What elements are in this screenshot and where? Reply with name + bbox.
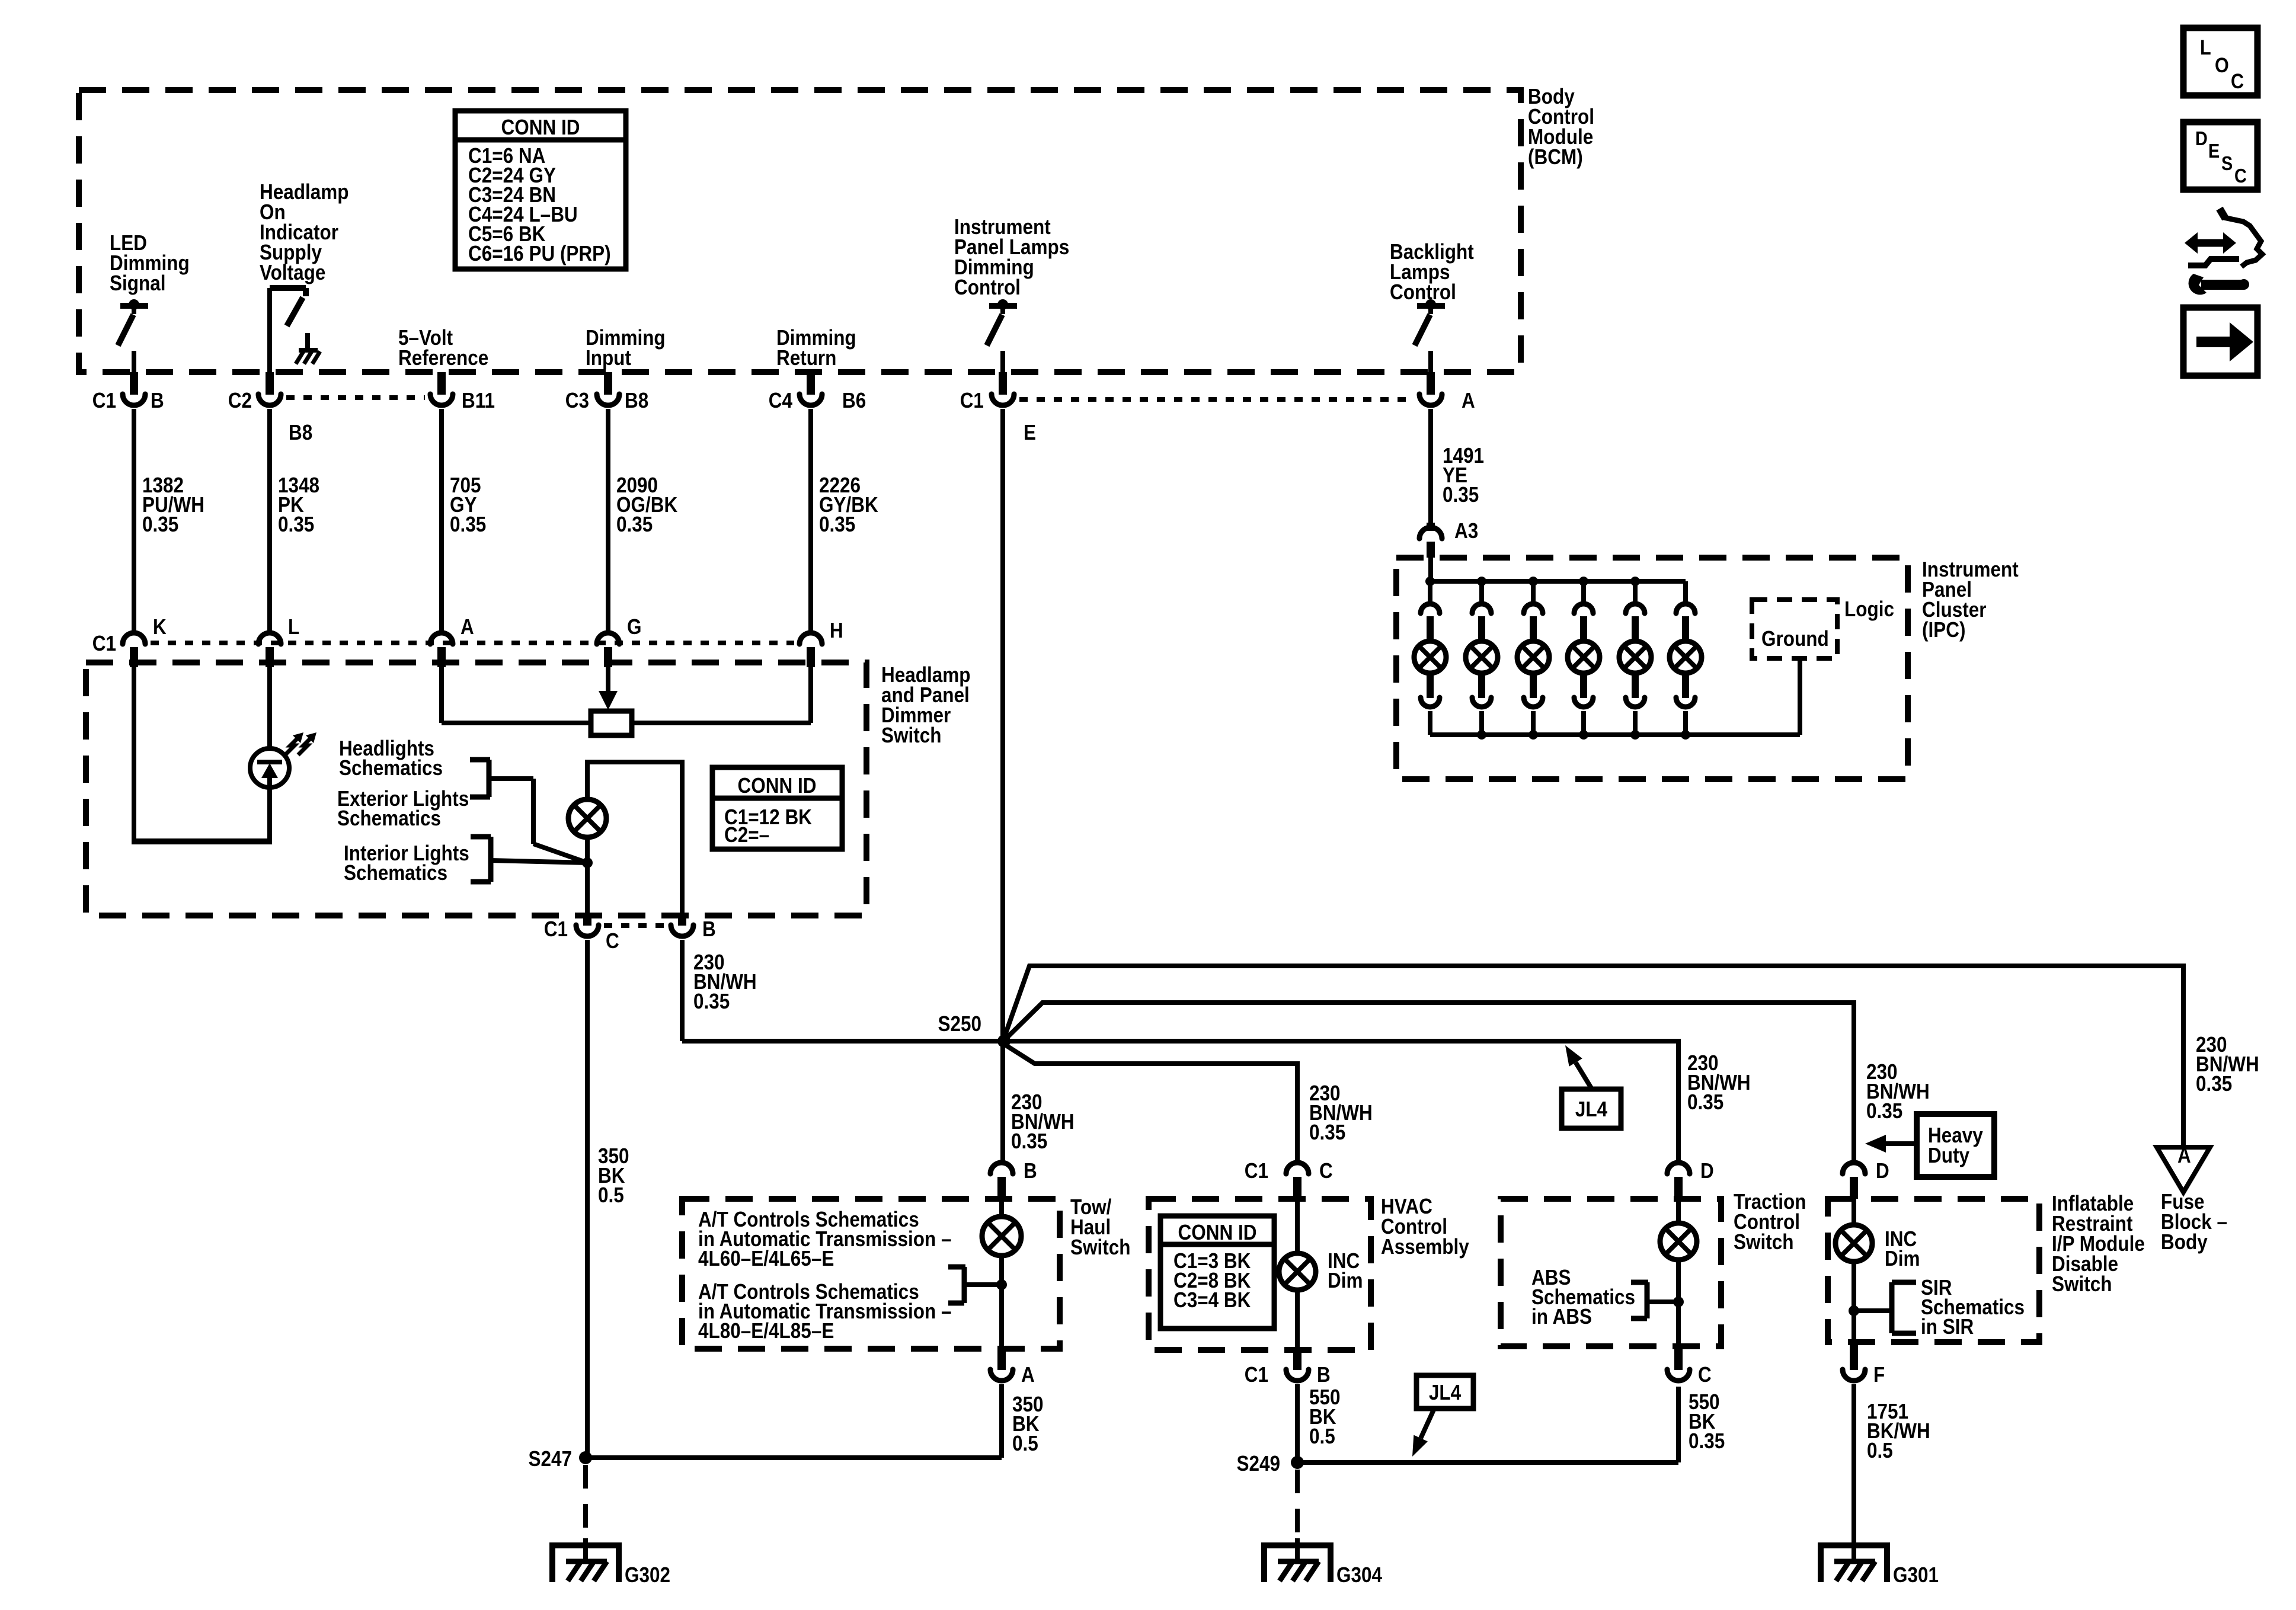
svg-text:C3=4 BK: C3=4 BK [1173, 1288, 1251, 1312]
svg-text:Body: Body [2161, 1230, 2208, 1254]
svg-text:0.5: 0.5 [1867, 1439, 1893, 1462]
svg-text:Control: Control [1390, 280, 1456, 304]
svg-text:C4: C4 [769, 389, 792, 412]
svg-text:C: C [1698, 1363, 1712, 1387]
svg-text:C1: C1 [92, 389, 116, 412]
svg-text:C6=16 PU (PRP): C6=16 PU (PRP) [468, 242, 611, 265]
svg-text:0.5: 0.5 [1012, 1432, 1038, 1455]
svg-text:Signal: Signal [110, 271, 165, 295]
svg-text:Voltage: Voltage [260, 261, 325, 284]
svg-text:in ABS: in ABS [1531, 1305, 1592, 1329]
svg-text:G302: G302 [625, 1563, 670, 1587]
svg-text:B: B [1024, 1159, 1037, 1183]
svg-text:in SIR: in SIR [1921, 1315, 1974, 1339]
svg-text:C1: C1 [1245, 1159, 1268, 1183]
svg-text:H: H [830, 619, 843, 642]
svg-text:0.35: 0.35 [142, 513, 178, 536]
svg-text:A: A [461, 615, 474, 639]
svg-text:Dim: Dim [1328, 1269, 1363, 1292]
svg-text:C3: C3 [565, 389, 589, 412]
svg-text:B11: B11 [462, 389, 495, 412]
svg-text:JL4: JL4 [1575, 1097, 1607, 1121]
svg-text:C2: C2 [228, 389, 252, 412]
svg-text:S247: S247 [528, 1447, 572, 1471]
svg-text:C: C [606, 929, 619, 953]
svg-text:Switch: Switch [1070, 1235, 1130, 1259]
svg-text:S249: S249 [1236, 1452, 1280, 1475]
svg-text:Switch: Switch [1734, 1230, 1793, 1254]
svg-text:4L80–E/4L85–E: 4L80–E/4L85–E [698, 1319, 834, 1343]
svg-text:Logic: Logic [1844, 597, 1894, 621]
svg-text:L: L [2200, 36, 2211, 59]
svg-text:Schematics: Schematics [337, 806, 441, 830]
svg-text:0.35: 0.35 [819, 513, 855, 536]
svg-text:S: S [2221, 152, 2233, 174]
svg-text:B8: B8 [289, 421, 312, 444]
svg-text:B6: B6 [842, 389, 866, 412]
svg-text:0.35: 0.35 [2196, 1072, 2232, 1096]
svg-text:D: D [2195, 127, 2208, 149]
svg-text:JL4: JL4 [1429, 1381, 1461, 1404]
svg-text:C1: C1 [960, 389, 984, 412]
svg-text:D: D [1700, 1159, 1714, 1183]
svg-text:CONN ID: CONN ID [738, 774, 817, 798]
svg-text:B: B [702, 917, 716, 941]
svg-text:E: E [1024, 421, 1036, 444]
svg-text:Assembly: Assembly [1381, 1235, 1469, 1259]
svg-text:Reference: Reference [398, 346, 488, 370]
svg-text:Duty: Duty [1928, 1144, 1969, 1167]
svg-text:A: A [1021, 1363, 1035, 1387]
svg-text:0.35: 0.35 [693, 990, 730, 1013]
svg-text:C1: C1 [1245, 1363, 1268, 1387]
svg-text:C2=–: C2=– [724, 823, 769, 847]
svg-text:0.35: 0.35 [1443, 483, 1479, 507]
svg-text:Switch: Switch [2052, 1272, 2112, 1296]
svg-text:G301: G301 [1893, 1563, 1939, 1587]
svg-text:Ground: Ground [1761, 627, 1829, 651]
svg-text:K: K [153, 615, 167, 639]
svg-text:C1: C1 [92, 632, 116, 655]
svg-text:0.35: 0.35 [1689, 1429, 1725, 1453]
svg-text:L: L [288, 615, 299, 639]
svg-text:C: C [2234, 165, 2247, 187]
svg-text:Switch: Switch [881, 724, 941, 747]
svg-text:0.35: 0.35 [616, 513, 653, 536]
svg-text:4L60–E/4L65–E: 4L60–E/4L65–E [698, 1247, 834, 1270]
svg-text:Return: Return [776, 346, 836, 370]
svg-text:Schematics: Schematics [344, 861, 447, 885]
svg-text:0.35: 0.35 [1309, 1121, 1345, 1144]
svg-text:0.5: 0.5 [598, 1183, 624, 1207]
svg-text:0.35: 0.35 [1687, 1090, 1723, 1114]
svg-text:S250: S250 [938, 1012, 981, 1036]
svg-text:A: A [2177, 1144, 2191, 1167]
svg-text:D: D [1876, 1159, 1889, 1183]
svg-text:C: C [2231, 69, 2244, 92]
svg-text:0.35: 0.35 [1866, 1099, 1902, 1123]
svg-text:CONN ID: CONN ID [501, 116, 580, 139]
svg-text:(BCM): (BCM) [1528, 145, 1583, 169]
svg-text:E: E [2208, 140, 2220, 162]
svg-text:CONN ID: CONN ID [1178, 1221, 1256, 1244]
svg-text:B8: B8 [625, 389, 648, 412]
svg-text:0.35: 0.35 [278, 513, 314, 536]
svg-text:Schematics: Schematics [339, 756, 443, 780]
svg-text:B: B [1317, 1363, 1331, 1387]
svg-text:G: G [627, 615, 642, 639]
svg-text:0.35: 0.35 [450, 513, 486, 536]
svg-text:F: F [1873, 1363, 1885, 1387]
svg-text:A: A [1462, 389, 1475, 412]
svg-text:A3: A3 [1454, 519, 1478, 543]
svg-text:0.5: 0.5 [1309, 1425, 1335, 1448]
svg-text:C: C [1319, 1159, 1333, 1183]
svg-text:(IPC): (IPC) [1922, 618, 1965, 642]
svg-text:Dim: Dim [1885, 1247, 1920, 1270]
svg-text:Input: Input [586, 346, 631, 370]
svg-text:0.35: 0.35 [1011, 1129, 1047, 1153]
svg-text:Control: Control [954, 276, 1021, 299]
svg-text:G304: G304 [1336, 1563, 1382, 1587]
svg-text:B: B [151, 389, 164, 412]
svg-text:C1: C1 [544, 917, 568, 941]
svg-text:O: O [2215, 53, 2229, 76]
